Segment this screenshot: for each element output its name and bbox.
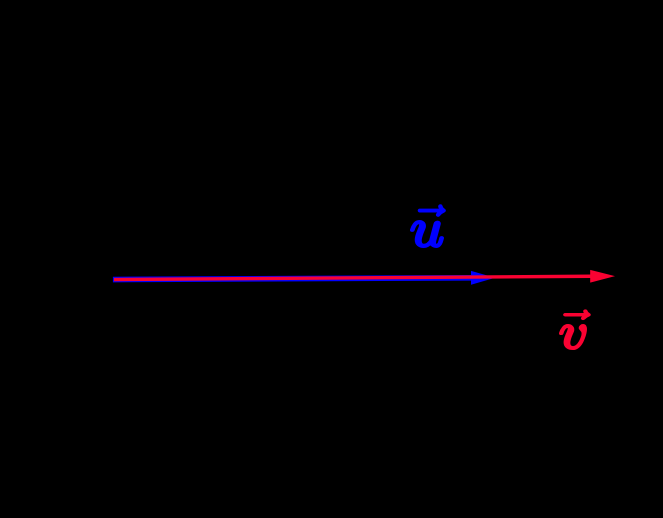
label v (560, 310, 589, 349)
vector v (114, 270, 615, 283)
label u (411, 205, 444, 246)
vector u (113, 271, 495, 285)
